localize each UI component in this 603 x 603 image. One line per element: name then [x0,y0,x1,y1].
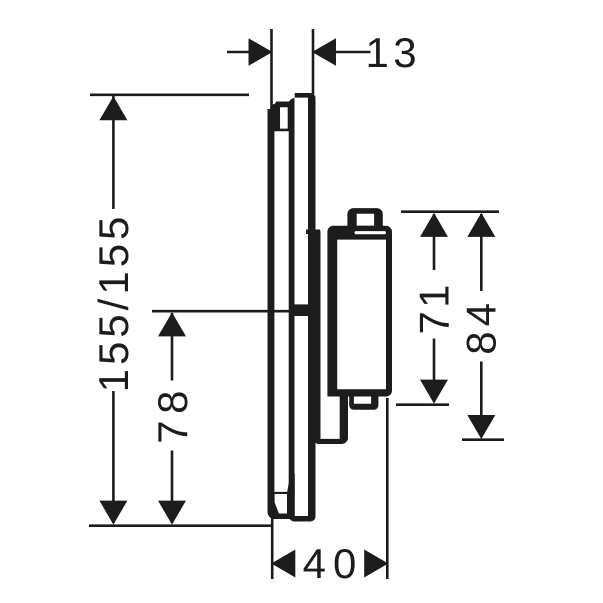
tick bottom-left [89,524,273,527]
arrow 71 top (points up) [420,213,448,237]
flange bottom notch block [273,492,295,519]
tick 84 bottom [462,438,504,441]
flange left edge [268,109,275,506]
arrow 78 top (points up) [158,312,186,336]
dimension graphics [89,29,504,579]
plate panel outline [289,93,316,522]
svg-text:13: 13 [365,29,421,76]
flange bottom edge [272,514,292,520]
extension line 40 left [271,508,274,579]
tick 71 bottom [396,403,449,406]
svg-text:40: 40 [303,540,364,587]
tick top-left (155/155 top) [90,94,249,97]
dim line 84 lower [480,362,483,438]
dim line 13 left tail [227,51,250,54]
sleeve left line [316,231,321,443]
tick 78 top [152,310,294,313]
flange bottom wedge [287,474,295,493]
tick right top (71/84) [401,210,499,213]
arrow 84 bottom (points down) [467,415,495,439]
arrow 71 bottom (points down) [420,380,448,404]
flange top chamfer [269,102,281,114]
handle body outline [327,226,392,397]
extension line 13 right [312,29,315,94]
arrow 78 bottom (points down) [158,501,186,525]
dim line 13 right tail [336,51,371,54]
dim line 71 lower [433,339,436,403]
dim line 84 upper [480,214,483,291]
svg-text:78: 78 [149,384,196,444]
dim line 78 upper [171,313,174,381]
dim line 71 upper [433,214,436,270]
dim line 78 lower [171,451,174,524]
svg-text:71: 71 [410,281,457,334]
lower button [349,392,378,410]
dim line 155/155 lower [112,391,115,523]
arrow 13 right (points left) [312,38,336,66]
sleeve top connector [306,230,320,235]
arrow 155 top (points up) [99,96,127,120]
handle top inner sliver [355,231,387,234]
extension line 13 left [270,29,273,110]
arrow 84 top (points up) [467,213,495,237]
arrow 40 left (points left) [271,550,295,578]
arrow 13 left (points right) [249,38,273,66]
dim line 155/155 upper [112,96,115,209]
panel junction band [293,304,310,316]
arrow 40 right (points right) [364,550,388,578]
svg-text:84: 84 [457,298,504,355]
flange top notch block [272,104,295,131]
top button [347,208,382,229]
flange top edge line [276,102,291,106]
arrow 155 bottom (points down) [99,501,127,525]
sleeve bottom U-part [316,392,349,444]
svg-text:155/155: 155/155 [90,213,137,393]
flange bottom chamfer [268,502,292,519]
extension line 40 right [386,398,389,579]
